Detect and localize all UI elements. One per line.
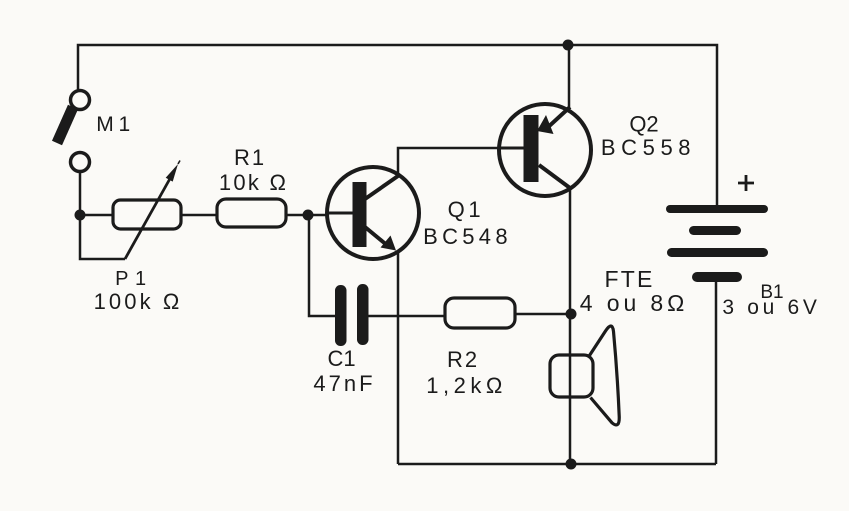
transistor Q1 circle (327, 167, 419, 259)
transistor Q2 circle (499, 104, 591, 196)
wire P1 wiper return loop (80, 219, 125, 259)
svg-text:1,2kΩ: 1,2kΩ (426, 373, 507, 398)
wire node B down to C1 (309, 215, 335, 316)
transistor Q1 base lead (327, 212, 353, 215)
transistor Q1 emitter line with arrow (365, 227, 396, 251)
wire Q1 emitter to bottom rail (397, 253, 400, 464)
wire Q1 collector to Q2 base (398, 148, 499, 176)
wire top supply rail with battery drop (78, 45, 717, 205)
wire bottom ground rail (398, 463, 716, 466)
svg-text:Q2: Q2 (629, 112, 658, 137)
node top rail junction dot (563, 40, 574, 51)
svg-text:R1: R1 (234, 145, 266, 170)
label C1 (313, 346, 375, 396)
svg-text:R2: R2 (447, 347, 479, 372)
label R2 (426, 347, 507, 398)
wire R1 to node B (286, 214, 327, 217)
wire node A to P1 (80, 214, 113, 217)
svg-text:FTE: FTE (604, 266, 654, 292)
wire C1 to R2 (369, 315, 446, 318)
svg-text:Q1: Q1 (448, 197, 485, 222)
switch/mic M1 lever (57, 107, 73, 143)
label B1 (722, 282, 820, 319)
battery B1 short plate 1 (689, 226, 741, 235)
svg-text:10k Ω: 10k Ω (219, 170, 288, 195)
resistor R2 body (445, 298, 515, 328)
transistor Q2 emitter line with arrow (537, 107, 570, 134)
label FTE (580, 266, 688, 316)
wire Q2 emitter to top rail (568, 45, 571, 108)
switch/mic M1 bottom terminal (71, 153, 90, 172)
svg-text:M 1: M 1 (96, 113, 130, 136)
svg-text:P 1: P 1 (115, 268, 147, 290)
label R1 (219, 145, 288, 195)
transistor Q2 base bar (524, 115, 539, 182)
wire R2 to node C (515, 313, 570, 316)
battery B1 long plate 2 (667, 248, 768, 257)
node B junction dot (303, 210, 314, 221)
transistor Q1 base bar (353, 182, 367, 247)
transistor Q1 collector line (365, 176, 398, 199)
svg-text:4 ou 8Ω: 4 ou 8Ω (580, 290, 688, 316)
wire battery to bottom rail (715, 282, 718, 464)
speaker FTE box (550, 355, 593, 397)
label M1 (96, 113, 130, 136)
capacitor C1 left plate (335, 285, 347, 346)
wire Q2 collector down through speaker to bottom rail (569, 188, 572, 464)
node A junction dot (75, 210, 86, 221)
wire P1 to R1 (181, 214, 217, 217)
node bottom junction dot (566, 459, 577, 470)
speaker FTE horn (589, 326, 620, 425)
potentiometer P1 wiper arrow (125, 161, 180, 260)
label Q1 (423, 197, 512, 249)
resistor R1 body (217, 199, 286, 227)
transistor Q2 base lead (499, 147, 524, 150)
battery B1 short plate 2 (692, 272, 742, 282)
label P1 (94, 268, 183, 314)
switch/mic M1 top terminal (71, 91, 90, 110)
battery B1 plus sign (738, 175, 754, 191)
svg-text:C1: C1 (327, 346, 355, 371)
wire M1 to node A (79, 172, 82, 215)
svg-text:3 ou 6V: 3 ou 6V (722, 296, 820, 319)
battery B1 long plate 1 (666, 205, 768, 213)
capacitor C1 right plate (357, 284, 369, 345)
transistor Q2 collector line (539, 165, 570, 188)
svg-text:BC558: BC558 (601, 135, 696, 160)
svg-text:BC548: BC548 (423, 224, 512, 249)
svg-text:47nF: 47nF (313, 371, 375, 396)
label Q2 (601, 112, 696, 161)
potentiometer P1 body (113, 200, 181, 229)
svg-text:100k Ω: 100k Ω (94, 289, 183, 314)
node C junction dot (566, 309, 577, 320)
